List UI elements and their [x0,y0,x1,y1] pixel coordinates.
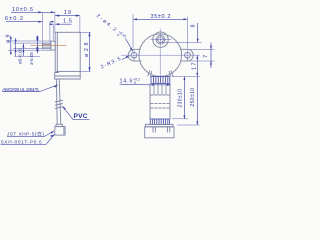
svg-text:AWG#26 UL 1061*5: AWG#26 UL 1061*5 [2,87,39,92]
right mounting hole ø4.2 [185,52,191,58]
left mounting ear [128,49,141,61]
connector body JST (side) [55,127,65,136]
svg-text:250±10: 250±10 [190,88,196,107]
svg-text:PVC: PVC [74,113,88,120]
shaft centerline [31,44,67,46]
connector collar (side) [56,124,62,126]
dim 7 line [210,43,212,69]
motor body (side view) [55,32,80,71]
dim line with bars near shaft [36,36,38,54]
svg-text:8: 8 [191,25,197,28]
shaft boss circle ø9 [153,32,168,47]
leader 2-ø4.2+0.15 [95,12,127,41]
connector housing body (front) [145,127,174,138]
ribbon tick row 1 [150,94,169,96]
dim 17 [196,55,198,76]
wire housing box (side) [55,71,80,79]
connector pin block (front) [150,119,169,124]
svg-text:ø28: ø28 [84,43,90,58]
dim ø5 line [15,38,17,56]
ribbon tick row 3 [150,107,169,109]
horizontal centerline through holes [121,54,200,56]
vertical centerline [159,29,161,78]
dim line 14.6 across comb [150,84,171,86]
svg-text:2-R3.5: 2-R3.5 [100,56,122,71]
svg-text:3-0.05: 3-0.05 [29,52,34,65]
svg-text:14.6: 14.6 [120,79,133,85]
shaft boss [51,41,55,50]
svg-text:0: 0 [116,33,120,37]
dim ø9 extension lines [8,40,51,42]
svg-text:2-ø4.2: 2-ø4.2 [95,13,117,33]
shaft circle ø5 [156,35,165,44]
ribbon cable outer lines [150,84,170,119]
wire grip comb (motor exit) [151,76,170,83]
motor body circle ø28 [139,34,182,77]
dim 230±10 [183,77,185,119]
dim 250±10 [196,77,198,126]
PVC tick marks on cable [55,100,63,108]
svg-text:19: 19 [64,10,71,16]
svg-text:1.5: 1.5 [63,19,72,25]
dim 8 [162,41,202,43]
svg-text:17: 17 [192,63,198,71]
ribbon cable wire separation lines [154,84,166,95]
shaft with flat [42,43,50,49]
svg-text:ø5-0.05: ø5-0.05 [18,48,23,64]
dim ø5 extension lines [13,42,42,44]
svg-text:6±0.2: 6±0.2 [5,16,23,22]
left mounting hole ø4.2 [131,52,137,58]
dim 3 line [22,44,24,57]
lead wires going down [56,79,60,124]
right mounting ear [180,49,193,61]
shaft inner circle [158,37,164,43]
connector latch legs (front) [153,127,170,133]
hole center ticks [133,50,135,60]
svg-text:7: 7 [203,55,209,58]
extension line bottom of motor [171,76,199,78]
wire exit neck walls [148,70,173,76]
dim ø28 extension lines [80,31,91,33]
dim ø9 line [10,36,12,55]
connector top lip (front) [146,124,174,126]
svg-text:SXH-001T-P0.6: SXH-001T-P0.6 [1,140,42,145]
front flange double line [56,32,58,71]
dim ø28 line [89,32,91,71]
ribbon tick row 2 [150,103,169,105]
boss crosshair [151,39,172,41]
dim 7 extension lines (ear top/bottom) [190,48,215,50]
svg-text:230±10: 230±10 [178,89,184,108]
